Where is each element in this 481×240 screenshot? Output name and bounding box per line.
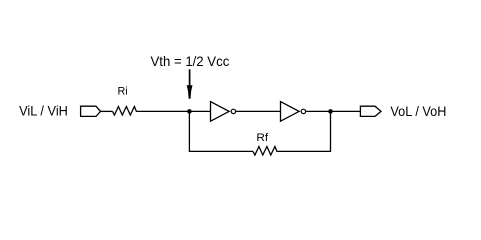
output port tag VoL/VoH	[360, 106, 381, 116]
wire node B down	[330, 111, 332, 151]
annotation arrow pointing at node A	[187, 69, 193, 99]
svg-text:Vth = 1/2 Vcc: Vth = 1/2 Vcc	[151, 53, 230, 69]
svg-text:VoL / VoH: VoL / VoH	[390, 103, 446, 119]
node A junction dot	[187, 109, 192, 114]
wire U1 to U2	[236, 110, 280, 112]
node B junction dot	[328, 109, 333, 114]
resistor Ri	[113, 107, 138, 116]
svg-text:ViL / ViH: ViL / ViH	[19, 103, 68, 119]
wire Ri to node A	[137, 110, 210, 112]
wire node A down	[188, 111, 190, 151]
wire input tag to Ri	[101, 110, 113, 112]
wire feedback bottom right	[278, 150, 331, 152]
inverter U2 triangle	[281, 102, 300, 122]
wire U2 to output tag	[306, 110, 360, 112]
svg-text:Ri: Ri	[118, 85, 128, 97]
inverter U1 triangle	[211, 102, 230, 122]
resistor Rf	[253, 147, 278, 156]
wire feedback bottom left	[189, 150, 253, 152]
input port tag ViL/ViH	[81, 106, 101, 116]
inverter U2 output bubble	[301, 109, 305, 113]
svg-text:Rf: Rf	[256, 132, 269, 144]
inverter U1 output bubble	[231, 109, 235, 113]
